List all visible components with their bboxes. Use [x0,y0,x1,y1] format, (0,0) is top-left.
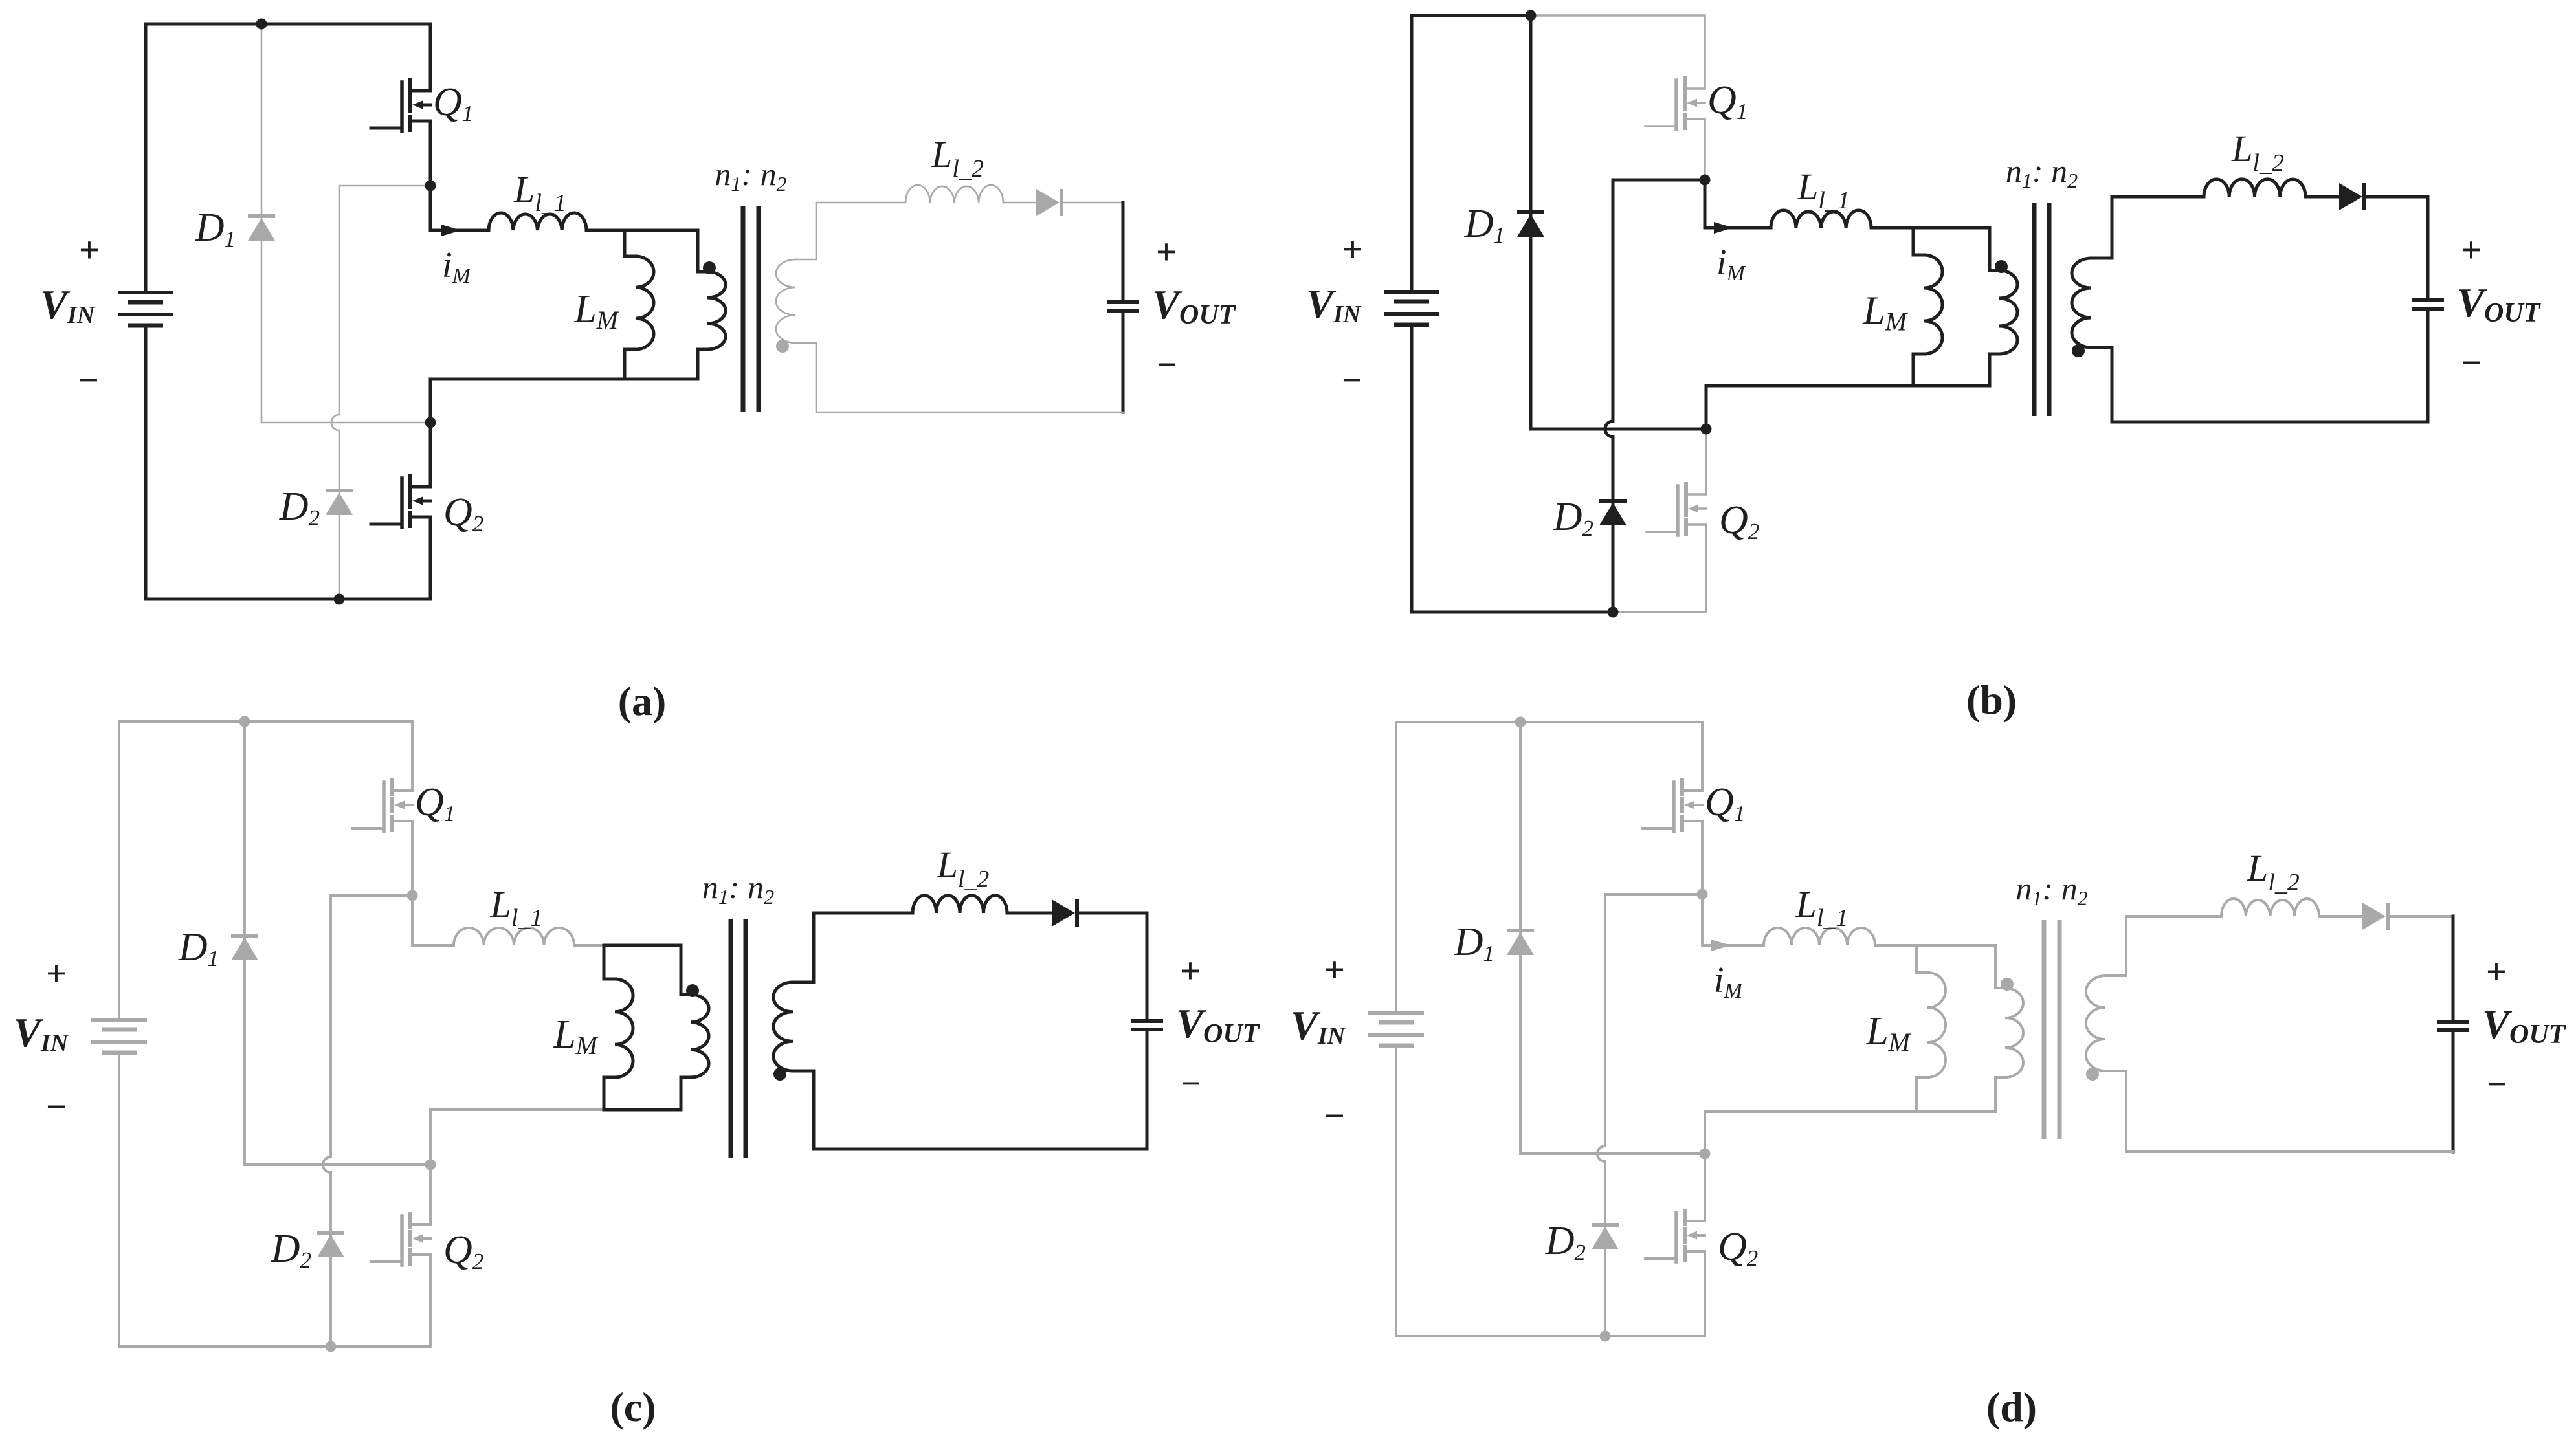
svg-text:−: − [1181,1064,1201,1104]
svg-text:+: + [1342,230,1363,270]
svg-text:n1: n2: n1: n2 [2015,870,2087,910]
svg-text:+: + [46,954,67,994]
svg-text:(b): (b) [1966,677,2017,723]
svg-text:(a): (a) [618,678,667,724]
svg-text:n1: n2: n1: n2 [702,869,774,908]
svg-text:−: − [1324,1096,1345,1136]
svg-text:n1: n2: n1: n2 [2006,153,2078,192]
svg-text:−: − [1342,360,1362,401]
svg-text:−: − [46,1087,67,1127]
svg-text:−: − [2461,343,2482,383]
svg-text:(d): (d) [1986,1384,2037,1430]
svg-text:+: + [2486,952,2507,992]
svg-text:+: + [79,230,100,270]
svg-text:n1: n2: n1: n2 [715,156,786,195]
svg-text:−: − [1157,345,1177,385]
svg-text:+: + [1180,951,1201,991]
svg-text:+: + [1156,232,1177,272]
svg-text:−: − [78,360,99,401]
svg-text:−: − [2487,1064,2507,1105]
svg-text:(c): (c) [610,1384,656,1430]
svg-text:+: + [1324,950,1345,990]
svg-text:+: + [2461,230,2482,270]
